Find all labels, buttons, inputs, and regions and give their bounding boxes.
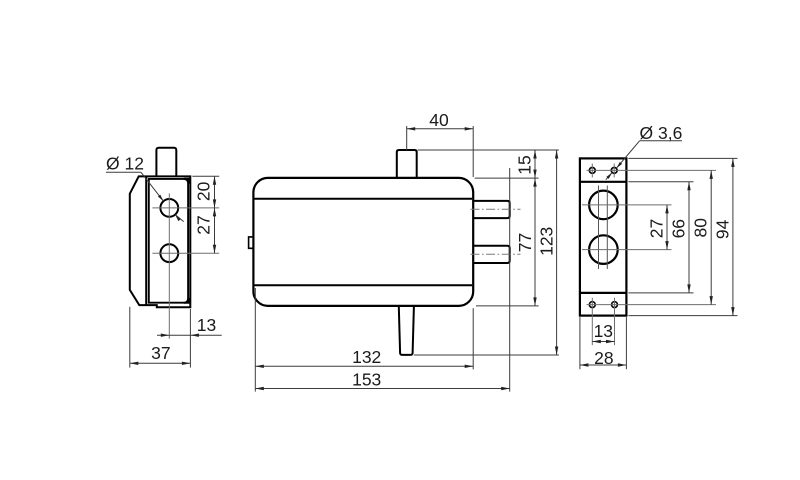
Ø12 leader shoulder [106, 171, 141, 173]
dim 40 extension left (pin center) [406, 126, 408, 150]
svg-text:37: 37 [151, 343, 170, 363]
Ø3,6 leader arrow lower [606, 172, 613, 179]
dim 37 arrows [130, 362, 139, 365]
lower plug center line [471, 253, 521, 255]
left view top pin [156, 148, 176, 177]
bottom small hole left [589, 302, 595, 308]
svg-text:66: 66 [669, 219, 689, 238]
dim 66 line [688, 182, 690, 293]
body right extension line down [472, 308, 474, 369]
body top extension line right [475, 177, 539, 179]
dim 132 arrows [255, 365, 263, 368]
bottom tapered pin [399, 307, 414, 355]
svg-text:40: 40 [429, 110, 449, 130]
dim 27 arrows (right) [665, 205, 668, 214]
inner plate dark corner bottom-right [184, 298, 190, 304]
body left extension line down [254, 288, 256, 392]
dim 80 line [710, 170, 712, 304]
plug end extension line down [509, 168, 511, 392]
bottom holes vertical center lines with extension down [591, 298, 593, 345]
svg-text:28: 28 [594, 348, 613, 368]
dim 153 arrows [255, 387, 263, 390]
left view inner rounded plate [149, 179, 188, 303]
dim 123 line [556, 150, 558, 355]
svg-text:132: 132 [352, 347, 381, 367]
pin top extension line [418, 149, 559, 151]
bottom holes horizontal center line + extension [587, 304, 717, 306]
upper hole horizontal center line [152, 207, 219, 209]
large circle upper horizontal center line + extension [582, 204, 672, 206]
plate left extension down [579, 317, 581, 369]
svg-text:Ø 3,6: Ø 3,6 [640, 123, 683, 143]
large circle lower horizontal center line + extension [582, 249, 672, 251]
top small hole left [589, 168, 595, 174]
dim 94 line [732, 158, 734, 315]
top flange line [580, 181, 627, 183]
dim 13 arrows (outside) [161, 334, 170, 337]
plate outline [580, 158, 627, 315]
left view body left edge [145, 176, 147, 305]
Ø12 leader arrow lower [174, 214, 181, 221]
body inner bottom line [255, 284, 473, 286]
left view upper hole [160, 199, 178, 217]
svg-text:94: 94 [712, 219, 732, 239]
left view lower hole [160, 244, 178, 262]
dim 28 arrows [580, 363, 589, 366]
dim 27 arrows [213, 208, 216, 217]
dim 40 extension right (body edge) [472, 126, 474, 177]
dim 123 arrows [555, 150, 558, 159]
upper large circle [589, 191, 618, 220]
Ø12 leader arrow upper [158, 195, 165, 202]
left view body outline with bulge and bottom step [130, 176, 191, 307]
upper plug center line [471, 208, 521, 210]
plate top extension right [628, 157, 737, 159]
dim 94 arrows [731, 158, 734, 167]
bottom flange extension right [628, 292, 693, 294]
Ø3,6 leader segment upper [616, 141, 639, 169]
dim 20 line [214, 176, 216, 208]
dim 15 line [534, 150, 536, 178]
svg-text:123: 123 [536, 227, 556, 256]
svg-text:15: 15 [515, 155, 535, 174]
svg-text:13: 13 [197, 315, 216, 335]
dim 77 arrows [533, 178, 536, 187]
top holes horizontal center line + extension [587, 169, 717, 171]
Ø12 leader segment to hole [141, 172, 164, 201]
dim 40 arrows [407, 127, 416, 130]
dim 40 line [407, 128, 474, 130]
dim 13 line (left view, arrows outside) [157, 334, 222, 336]
body inner top line [255, 198, 473, 200]
svg-text:20: 20 [194, 181, 214, 201]
dim 66 arrows [687, 182, 690, 191]
top holes vertical center lines [591, 164, 593, 178]
main body rounded rectangle [253, 178, 473, 306]
Ø3,6 leader arrow upper [615, 162, 622, 169]
vertical lines through circles [598, 186, 600, 270]
plate right extension down [625, 317, 627, 369]
dim 27 line (right view) [666, 205, 668, 250]
vertical center line through holes [168, 193, 170, 338]
dim 27 line (left view) [214, 208, 216, 253]
lower hole horizontal center line [152, 252, 219, 254]
right edge extension line down [189, 309, 191, 368]
plate bottom extension right [628, 315, 737, 317]
bottom flange line [580, 292, 627, 294]
svg-text:13: 13 [594, 321, 613, 341]
svg-text:77: 77 [515, 233, 535, 252]
Ø3,6 leader shoulder [640, 140, 682, 142]
left bulge extension line down [129, 307, 131, 368]
dim 20 arrows [213, 176, 216, 185]
svg-text:153: 153 [352, 369, 381, 389]
dim 28 line [580, 364, 627, 366]
svg-text:80: 80 [691, 218, 711, 238]
lower large circle [589, 235, 618, 264]
lower right plug [474, 246, 510, 263]
body bottom extension line right [476, 305, 539, 307]
dim 15 arrows [533, 150, 536, 159]
dim 153 line [255, 388, 509, 390]
inner plate dark corner top-right [184, 178, 190, 184]
svg-text:27: 27 [194, 215, 214, 234]
dim 13 line (right view) [592, 341, 614, 343]
Ø3,6 leader tail lower [606, 173, 612, 180]
dim 13 arrows (right view) [592, 340, 601, 343]
top edge extension line [192, 175, 219, 177]
dim 37 line [130, 362, 191, 364]
dim 77 line [534, 178, 536, 306]
upper right plug [474, 201, 510, 218]
dim 132 line [255, 365, 473, 367]
top pin (middle view) [397, 150, 417, 177]
bottom small hole right [612, 302, 618, 308]
svg-text:27: 27 [646, 219, 666, 238]
svg-text:Ø 12: Ø 12 [106, 153, 144, 173]
pin bottom extension line [414, 354, 559, 356]
left notch [249, 237, 253, 248]
Ø12 leader tail lower-right [175, 215, 184, 222]
top small hole right [611, 168, 617, 174]
top flange extension right [628, 181, 693, 183]
dim 80 arrows [710, 170, 713, 179]
